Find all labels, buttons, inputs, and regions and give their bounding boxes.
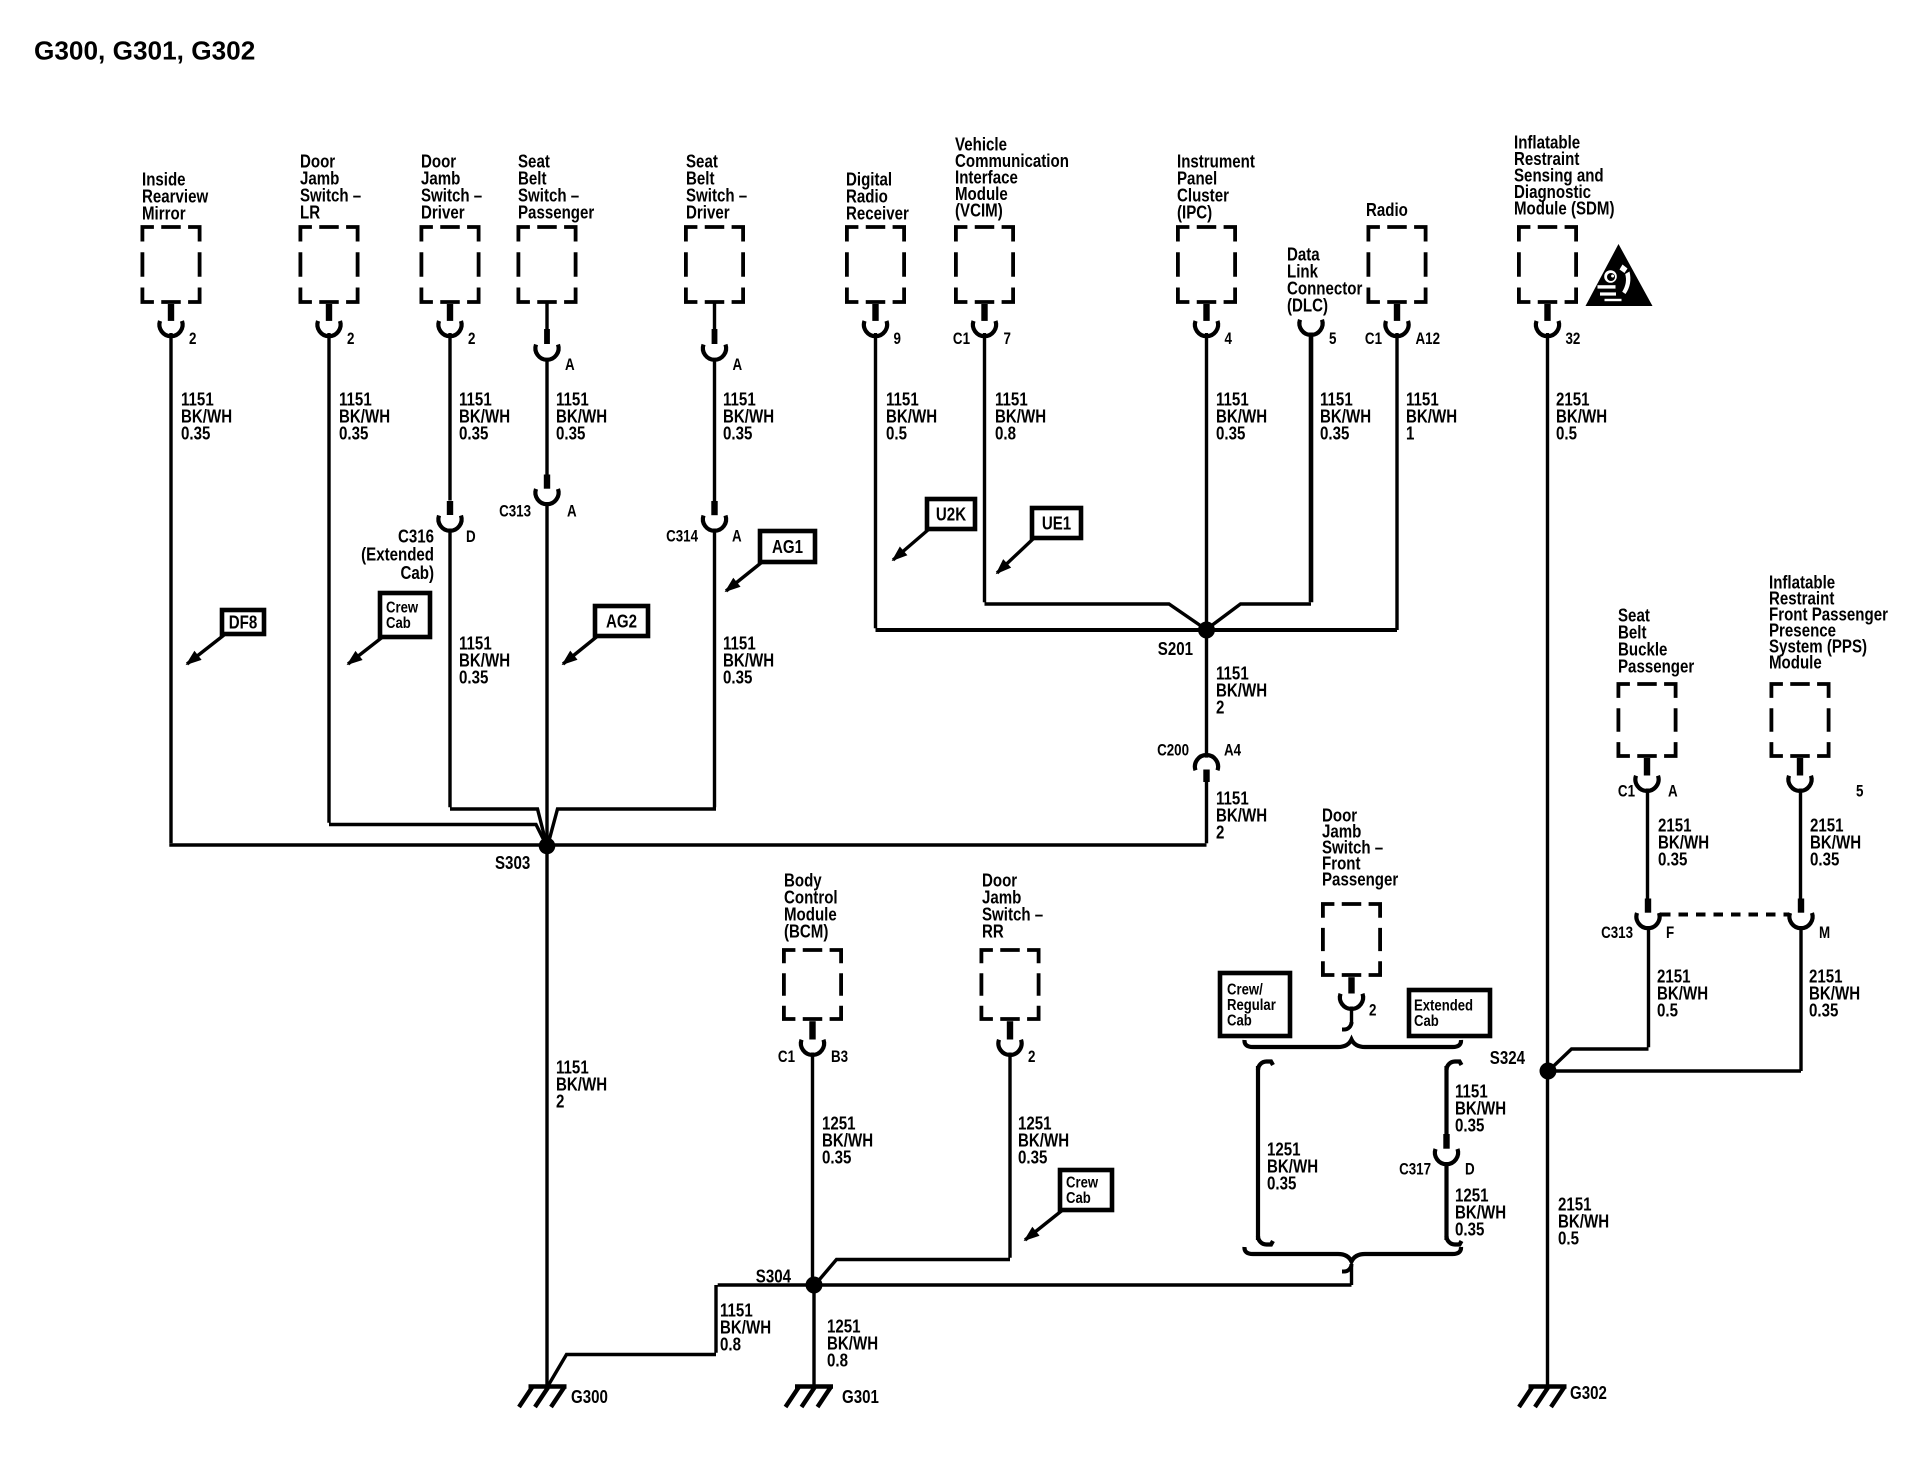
wire 1151 BK/WH 0.35 below C316 to S303 <box>450 529 546 843</box>
svg-text:(IPC): (IPC) <box>1177 202 1212 223</box>
svg-text:0.35: 0.35 <box>723 423 752 444</box>
wire 1151 BK/WH 0.35 IPC to S201 <box>1207 333 1268 630</box>
svg-text:A: A <box>1668 783 1678 800</box>
svg-text:A: A <box>567 503 577 520</box>
connector pin 9 of digital radio receiver <box>864 304 901 348</box>
svg-text:(DLC): (DLC) <box>1287 295 1328 316</box>
node S303 <box>495 838 555 874</box>
connector pin 32 of SDM <box>1536 304 1580 348</box>
connector C317 pin D <box>1399 1134 1475 1179</box>
dashed connector line C313 F to M <box>1661 913 1788 917</box>
wire 1251 BK/WH 0.8 S304 to G301 <box>814 1285 878 1386</box>
SRS warning triangle icon <box>1586 244 1653 306</box>
svg-text:9: 9 <box>894 331 901 348</box>
svg-text:Passenger: Passenger <box>1322 869 1399 890</box>
svg-text:5: 5 <box>1329 331 1336 348</box>
svg-text:U2K: U2K <box>936 504 966 525</box>
svg-text:M: M <box>1819 925 1830 942</box>
connector C1 pin 7 of VCIM <box>953 304 1011 348</box>
connector pin 2 of front passenger door jamb switch <box>1340 977 1377 1020</box>
svg-text:Cab: Cab <box>1066 1190 1091 1207</box>
connector C1 pin A12 of radio <box>1365 304 1440 348</box>
component box: Seat Belt Switch - Driver <box>686 151 747 302</box>
crew/regular cab branch wire 1251 BK/WH 0.35 <box>1258 1062 1318 1245</box>
wire 1151 BK/WH 1 radio to S201 <box>1397 333 1457 630</box>
connector C316 pin D (Extended Cab) <box>361 501 476 583</box>
svg-text:AG2: AG2 <box>606 611 637 632</box>
wire 2151 BK/WH 0.35 C313 M to S324 <box>1556 926 1860 1071</box>
svg-text:32: 32 <box>1566 331 1581 348</box>
svg-text:1: 1 <box>1406 423 1414 444</box>
svg-text:0.35: 0.35 <box>1216 423 1245 444</box>
svg-text:C200: C200 <box>1157 742 1189 759</box>
wire 1251 BK/WH 0.35 below C317 <box>1447 1162 1507 1245</box>
svg-text:Receiver: Receiver <box>846 203 909 224</box>
svg-text:Passenger: Passenger <box>518 202 595 223</box>
connector pin 4 of IPC <box>1195 304 1233 348</box>
wire 1151 BK/WH 0.35 driver seat belt switch <box>715 358 775 501</box>
svg-text:S303: S303 <box>495 853 530 874</box>
svg-text:0.35: 0.35 <box>459 667 488 688</box>
ground G301 <box>786 1387 879 1408</box>
svg-text:Module (SDM): Module (SDM) <box>1514 198 1615 219</box>
svg-text:G301: G301 <box>842 1387 879 1408</box>
svg-text:2: 2 <box>347 331 354 348</box>
svg-text:S324: S324 <box>1490 1048 1526 1069</box>
connector pin 2 of mirror <box>159 304 196 348</box>
svg-text:0.5: 0.5 <box>886 423 907 444</box>
svg-text:A: A <box>732 528 742 545</box>
svg-text:Mirror: Mirror <box>142 203 186 224</box>
callout Crew Cab (upper) with arrow <box>348 593 430 664</box>
svg-text:A4: A4 <box>1224 742 1242 759</box>
title G300, G301, G302 <box>34 36 255 66</box>
svg-text:5: 5 <box>1856 783 1863 800</box>
wire 1151 BK/WH 2 C200 to S303 <box>547 782 1267 845</box>
svg-text:C1: C1 <box>953 331 970 348</box>
connector C1 pin B3 of BCM <box>778 1021 848 1066</box>
svg-text:C313: C313 <box>499 503 531 520</box>
svg-text:0.35: 0.35 <box>1810 849 1839 870</box>
svg-text:2: 2 <box>1216 697 1224 718</box>
extended cab branch wire 1151 BK/WH 0.35 <box>1447 1062 1507 1136</box>
callout AG1 with arrow <box>726 531 815 591</box>
connector C313 pin F <box>1601 899 1674 943</box>
wire 1151 BK/WH 0.35 passenger seat belt switch <box>547 358 607 475</box>
component box: Door Jamb Switch - LR <box>300 151 361 302</box>
wire 1151 BK/WH 0.35 driver jamb switch upper <box>450 333 510 501</box>
connector pin 2 of RR door jamb switch <box>998 1021 1035 1066</box>
wire 1151 BK/WH to S303 <box>545 502 548 846</box>
component box: Door Jamb Switch - Front Passenger <box>1322 805 1399 975</box>
svg-text:0.35: 0.35 <box>1018 1147 1047 1168</box>
svg-text:A12: A12 <box>1416 331 1441 348</box>
wire 2151 BK/WH 0.5 C313 F to S324 <box>1551 926 1709 1069</box>
svg-text:A: A <box>565 357 575 374</box>
svg-text:(VCIM): (VCIM) <box>955 200 1003 221</box>
svg-text:C317: C317 <box>1399 1161 1431 1178</box>
wire 2151 BK/WH 0.5 S324 to G302 <box>1548 1071 1610 1386</box>
svg-text:2: 2 <box>1369 1002 1376 1019</box>
svg-text:LR: LR <box>300 202 320 223</box>
svg-text:2: 2 <box>1216 822 1224 843</box>
svg-text:Radio: Radio <box>1366 200 1408 221</box>
svg-text:Module: Module <box>1769 652 1822 673</box>
connector pin 5 of Data Link Connector (DLC) <box>1287 244 1363 348</box>
component box: Door Jamb Switch - RR <box>981 870 1043 1019</box>
connector C1 pin A of seat belt buckle passenger <box>1618 758 1678 801</box>
connector pin 2 of driver door jamb switch <box>438 304 475 348</box>
callout U2K with arrow <box>893 499 975 560</box>
callout Extended Cab <box>1409 990 1490 1036</box>
wire bus through S201 (digital radio to radio) <box>876 628 1398 632</box>
component box: Vehicle Communication Interface Module (VCIM) <box>955 134 1069 302</box>
wire bracket bottom to S304 feed <box>1342 1264 1352 1285</box>
connector pin A of passenger seat belt switch <box>535 302 574 374</box>
svg-text:A: A <box>733 357 743 374</box>
wire 2151 BK/WH 0.35 buckle to C313 <box>1648 789 1710 899</box>
connector C314 pin A <box>666 501 742 546</box>
svg-text:0.35: 0.35 <box>459 423 488 444</box>
wire 1151 BK/WH 0.35 below C314 to S303 <box>549 529 775 843</box>
svg-text:2: 2 <box>556 1091 564 1112</box>
component box: Radio <box>1366 200 1426 302</box>
svg-text:Cab): Cab) <box>400 563 434 584</box>
svg-text:S201: S201 <box>1158 639 1193 660</box>
svg-text:0.35: 0.35 <box>1455 1219 1484 1240</box>
svg-text:C1: C1 <box>1618 783 1635 800</box>
svg-text:Cab: Cab <box>1227 1012 1252 1029</box>
option bracket top (brace) <box>1244 1040 1461 1048</box>
svg-text:0.8: 0.8 <box>720 1334 741 1355</box>
svg-text:Cab: Cab <box>1414 1013 1439 1030</box>
svg-text:C313: C313 <box>1601 925 1633 942</box>
svg-text:0.8: 0.8 <box>995 423 1016 444</box>
node S324 <box>1490 1048 1557 1080</box>
connector C313 pin M <box>1789 899 1830 943</box>
svg-text:C1: C1 <box>778 1049 795 1066</box>
svg-text:G300, G301, G302: G300, G301, G302 <box>34 36 255 66</box>
svg-text:0.8: 0.8 <box>827 1350 848 1371</box>
wire 1251 BK/WH 0.35 BCM to S304 <box>813 1053 874 1286</box>
svg-text:0.35: 0.35 <box>181 423 210 444</box>
component box: Inflatable Restraint Sensing and Diagnostic Module (SDM) <box>1514 132 1615 302</box>
component box: Digital Radio Receiver <box>846 169 909 302</box>
svg-text:4: 4 <box>1225 331 1233 348</box>
wire 1151 BK/WH 0.8 VCIM to S201 <box>985 333 1203 627</box>
component box: Seat Belt Switch - Passenger <box>518 151 595 302</box>
callout UE1 with arrow <box>997 508 1081 573</box>
svg-text:0.35: 0.35 <box>556 423 585 444</box>
svg-text:0.35: 0.35 <box>1267 1173 1296 1194</box>
svg-text:Driver: Driver <box>686 202 730 223</box>
ground G300 <box>519 1387 608 1408</box>
callout Crew Cab (lower) with arrow <box>1025 1170 1112 1240</box>
wire 1151 BK/WH 0.35 LR switch to S303 <box>329 333 546 844</box>
callout AG2 with arrow <box>563 606 648 664</box>
wire 1251 BK/WH 0.35 RR switch to S304 <box>817 1053 1070 1284</box>
component box: Inside Rearview Mirror <box>142 169 209 302</box>
connector pin A of driver seat belt switch <box>703 302 742 374</box>
svg-text:0.35: 0.35 <box>1658 849 1687 870</box>
svg-text:0.5: 0.5 <box>1657 1000 1678 1021</box>
svg-text:Passenger: Passenger <box>1618 656 1695 677</box>
option bracket bottom (brace) <box>1244 1247 1461 1262</box>
svg-text:2: 2 <box>1028 1049 1035 1066</box>
node S304 <box>756 1266 823 1293</box>
wire 2151 BK/WH 0.35 PPS to C313 <box>1801 789 1862 899</box>
wire 1151 BK/WH 0.8 S304 to G300 <box>549 1285 815 1385</box>
svg-text:(BCM): (BCM) <box>784 921 828 942</box>
connector C313 pin A <box>499 475 577 521</box>
wire 2151 BK/WH 0.5 SDM to S324 <box>1548 333 1608 1071</box>
callout Crew/Regular Cab <box>1220 973 1290 1036</box>
connector pin 5 of PPS module <box>1788 758 1863 801</box>
node S201 <box>1158 622 1215 660</box>
ground G302 <box>1519 1383 1607 1407</box>
svg-text:Cab: Cab <box>386 615 411 632</box>
svg-text:0.35: 0.35 <box>1809 1000 1838 1021</box>
callout DF8 with arrow <box>187 610 264 664</box>
svg-text:2: 2 <box>468 331 475 348</box>
svg-text:0.5: 0.5 <box>1556 423 1577 444</box>
component box: Inflatable Restraint Front Passenger Presence System (PPS) Module <box>1769 572 1888 756</box>
wire S304 to cab option bracket <box>814 1283 1352 1286</box>
component box: Seat Belt Buckle Passenger <box>1618 605 1695 756</box>
component box: Body Control Module (BCM) <box>784 870 841 1019</box>
svg-text:G302: G302 <box>1570 1383 1607 1404</box>
svg-text:DF8: DF8 <box>229 612 257 633</box>
wire 1151 BK/WH 2 S303 to G300 <box>547 846 607 1386</box>
connector pin 2 of LR switch <box>317 304 354 348</box>
component box: Door Jamb Switch - Driver <box>421 151 482 302</box>
svg-text:C314: C314 <box>666 528 699 545</box>
svg-text:0.35: 0.35 <box>822 1147 851 1168</box>
svg-text:B3: B3 <box>831 1049 848 1066</box>
wire 1151 BK/WH 0.35 DLC to S201 <box>1211 333 1371 627</box>
svg-text:D: D <box>466 529 476 546</box>
svg-text:0.35: 0.35 <box>723 667 752 688</box>
svg-text:0.5: 0.5 <box>1558 1228 1579 1249</box>
svg-text:AG1: AG1 <box>772 537 803 558</box>
svg-text:0.35: 0.35 <box>1455 1115 1484 1136</box>
wire 1151 BK/WH 2 S201 to C200 <box>1207 630 1268 758</box>
svg-text:2: 2 <box>189 331 196 348</box>
svg-text:F: F <box>1666 925 1674 942</box>
svg-text:0.35: 0.35 <box>1320 423 1349 444</box>
svg-text:RR: RR <box>982 921 1004 942</box>
wire 1151 BK/WH 0.5 digital radio to S201 <box>876 333 938 628</box>
svg-text:Driver: Driver <box>421 202 465 223</box>
svg-text:0.35: 0.35 <box>339 423 368 444</box>
wire 1151 BK/WH 0.35 mirror to S303 <box>169 333 547 845</box>
wire from front passenger switch to option bracket <box>1342 1007 1352 1030</box>
svg-text:D: D <box>1465 1161 1475 1178</box>
svg-text:C1: C1 <box>1365 331 1382 348</box>
connector C200 pin A4 <box>1157 742 1242 782</box>
svg-text:7: 7 <box>1004 331 1011 348</box>
component box: Instrument Panel Cluster (IPC) <box>1177 151 1255 302</box>
svg-text:UE1: UE1 <box>1042 513 1071 534</box>
svg-text:G300: G300 <box>571 1387 608 1408</box>
